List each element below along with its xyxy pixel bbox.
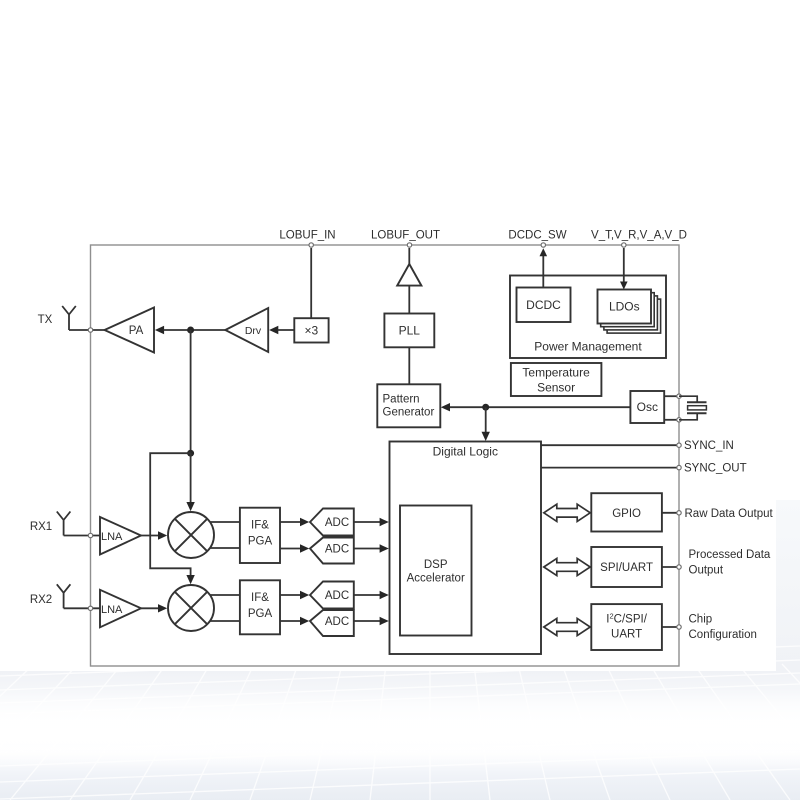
TX antenna	[62, 306, 76, 330]
bidirectional bus digital logic to SPI/UART	[544, 558, 590, 575]
temperature sensor box	[511, 363, 602, 396]
terminal LOBUF_IN	[309, 243, 313, 247]
svg-text:Output: Output	[689, 565, 724, 577]
node LO junction at TX line	[187, 327, 194, 334]
mixer RX2	[168, 585, 214, 631]
SPI/UART box	[591, 547, 662, 587]
svg-text:TX: TX	[38, 314, 53, 326]
svg-text:LNA: LNA	[101, 531, 123, 543]
wire SYNC_IN	[541, 444, 679, 446]
buffer amplifier LO out	[397, 264, 421, 286]
wire mixer2 I to IF box	[210, 594, 240, 596]
wire junction to digital logic with arrow	[485, 407, 487, 434]
wire IF2 to ADC3 with arrow	[280, 594, 302, 596]
wire LO branch to mixer2	[150, 453, 190, 576]
svg-text:PGA: PGA	[248, 535, 273, 547]
svg-text:DCDC_SW: DCDC_SW	[508, 230, 566, 242]
svg-text:PLL: PLL	[399, 324, 421, 338]
wire mixer1 Q to IF box	[210, 547, 240, 549]
I2C/SPI/UART box	[591, 604, 662, 650]
terminal RX2	[88, 606, 92, 610]
svg-text:Digital Logic: Digital Logic	[433, 445, 498, 459]
GPIO box	[591, 493, 662, 531]
wire RX2 antenna to LNA	[64, 607, 100, 609]
LDOs stacked box	[607, 299, 661, 333]
svg-text:UART: UART	[611, 629, 642, 641]
svg-text:SPI/UART: SPI/UART	[600, 562, 653, 574]
amplifier Drv	[225, 308, 268, 352]
svg-text:ADC: ADC	[325, 590, 349, 602]
terminal TX	[88, 328, 92, 332]
wire osc to crystal top	[664, 395, 679, 397]
ADC 2	[310, 538, 354, 564]
wire ADC3 to digital logic with arrow	[354, 594, 381, 596]
svg-text:Accelerator: Accelerator	[407, 573, 465, 585]
wire buffer to PLL	[408, 286, 410, 314]
IF and PGA box RX1	[240, 508, 280, 563]
wire RX1 antenna to LNA	[64, 535, 100, 537]
terminal V_T,V_R,V_A,V_D	[622, 243, 626, 247]
svg-text:Configuration: Configuration	[689, 629, 757, 641]
wire IF1 to ADC1 with arrow	[280, 521, 302, 523]
svg-text:LOBUF_OUT: LOBUF_OUT	[371, 230, 440, 242]
svg-text:Raw Data Output: Raw Data Output	[685, 508, 774, 520]
ADC 3	[310, 582, 354, 609]
terminal RX1	[88, 533, 92, 537]
oscillator Osc box	[630, 391, 664, 423]
bidirectional bus digital logic to GPIO	[544, 504, 590, 521]
chip outline border	[91, 245, 680, 666]
DCDC box	[517, 288, 571, 323]
terminal raw data output	[677, 511, 681, 515]
mixer RX1	[168, 512, 214, 558]
terminal DCDC_SW	[541, 243, 545, 247]
svg-text:ADC: ADC	[325, 517, 349, 529]
svg-text:Drv: Drv	[245, 325, 262, 337]
amplifier LNA RX1	[100, 517, 141, 555]
digital logic box	[390, 442, 542, 655]
RX1 antenna	[57, 512, 71, 536]
svg-text:DSP: DSP	[424, 559, 448, 571]
svg-text:Processed Data: Processed Data	[689, 549, 771, 561]
svg-text:LNA: LNA	[101, 604, 123, 616]
svg-text:LOBUF_IN: LOBUF_IN	[279, 230, 335, 242]
terminal SYNC_IN	[677, 443, 681, 447]
wire ADC1 to digital logic with arrow	[354, 521, 381, 523]
RX2 antenna	[57, 584, 71, 608]
wire osc to crystal bottom	[664, 419, 679, 421]
svg-text:Osc: Osc	[637, 400, 658, 414]
ADC 1	[310, 509, 354, 536]
wire mixer1 I to IF box	[210, 521, 240, 523]
svg-text:Pattern: Pattern	[383, 393, 420, 405]
crystal resonator	[679, 396, 697, 420]
svg-text:SYNC_IN: SYNC_IN	[684, 440, 734, 452]
svg-text:Temperature: Temperature	[522, 365, 590, 379]
amplifier PA	[105, 308, 155, 353]
svg-text:GPIO: GPIO	[612, 508, 641, 520]
wire TX antenna to PA	[69, 329, 105, 331]
svg-text:SYNC_OUT: SYNC_OUT	[684, 463, 747, 475]
wire osc to pattern generator with arrow	[448, 406, 630, 408]
wire GPIO to pin	[662, 512, 679, 514]
svg-text:Power Management: Power Management	[534, 340, 642, 354]
wire ADC4 to digital logic with arrow	[354, 620, 381, 622]
svg-text:RX1: RX1	[30, 521, 52, 533]
node LO junction	[187, 450, 194, 457]
wire LOBUF_OUT to buffer	[408, 248, 410, 264]
PLL box	[384, 314, 434, 348]
wire LNA1 to mixer1 with arrow	[141, 535, 160, 537]
wire LO to mixer1 with arrow	[190, 453, 192, 503]
wire LO down from TX junction	[190, 330, 192, 453]
svg-text:ADC: ADC	[325, 544, 349, 556]
terminal processed data output	[677, 565, 681, 569]
wire LOBUF_IN to x3	[310, 248, 312, 318]
IF and PGA box RX2	[240, 580, 280, 634]
svg-text:ADC: ADC	[325, 616, 349, 628]
terminal LOBUF_OUT	[407, 243, 411, 247]
terminal SYNC_OUT	[677, 465, 681, 469]
wire SYNC_OUT	[541, 467, 679, 469]
wire ADC2 to digital logic with arrow	[354, 548, 381, 550]
svg-text:Chip: Chip	[689, 613, 713, 625]
ADC 4	[310, 610, 354, 636]
wire Drv to PA with arrow	[155, 326, 164, 334]
DSP accelerator box	[400, 506, 472, 636]
wire PLL to pattern generator	[408, 347, 410, 384]
power management box	[510, 276, 666, 359]
bidirectional bus digital logic to I2C/SPI/UART	[544, 618, 590, 635]
terminal XTAL2	[677, 418, 681, 422]
wire x3 to Drv with arrow	[269, 326, 278, 334]
node osc junction	[482, 404, 489, 411]
svg-text:LDOs: LDOs	[609, 300, 640, 314]
svg-text:PGA: PGA	[248, 608, 273, 620]
terminal XTAL1	[677, 394, 681, 398]
svg-text:V_T,V_R,V_A,V_D: V_T,V_R,V_A,V_D	[591, 230, 687, 242]
svg-text:DCDC: DCDC	[526, 298, 561, 312]
amplifier LNA RX2	[100, 590, 141, 628]
wire IF2 to ADC4 with arrow	[280, 620, 302, 622]
pattern generator box	[377, 384, 440, 427]
svg-text:PA: PA	[129, 325, 144, 337]
svg-text:Sensor: Sensor	[537, 380, 575, 394]
wire DCDC to DCDC_SW with arrow	[542, 255, 544, 288]
wire LNA2 to mixer2 with arrow	[141, 607, 160, 609]
svg-text:Generator: Generator	[383, 406, 435, 418]
wire I2C to pin	[662, 626, 679, 628]
svg-text:×3: ×3	[305, 323, 319, 337]
wire SPI/UART to pin	[662, 566, 679, 568]
multiplier x3 box	[294, 318, 328, 342]
svg-text:IF&: IF&	[251, 592, 269, 604]
wire IF1 to ADC2 with arrow	[280, 548, 302, 550]
terminal chip configuration	[677, 625, 681, 629]
wire V supplies to LDOs with arrow	[623, 248, 625, 282]
svg-text:IF&: IF&	[251, 519, 269, 531]
svg-text:RX2: RX2	[30, 594, 52, 606]
wire mixer2 Q to IF box	[210, 620, 240, 622]
